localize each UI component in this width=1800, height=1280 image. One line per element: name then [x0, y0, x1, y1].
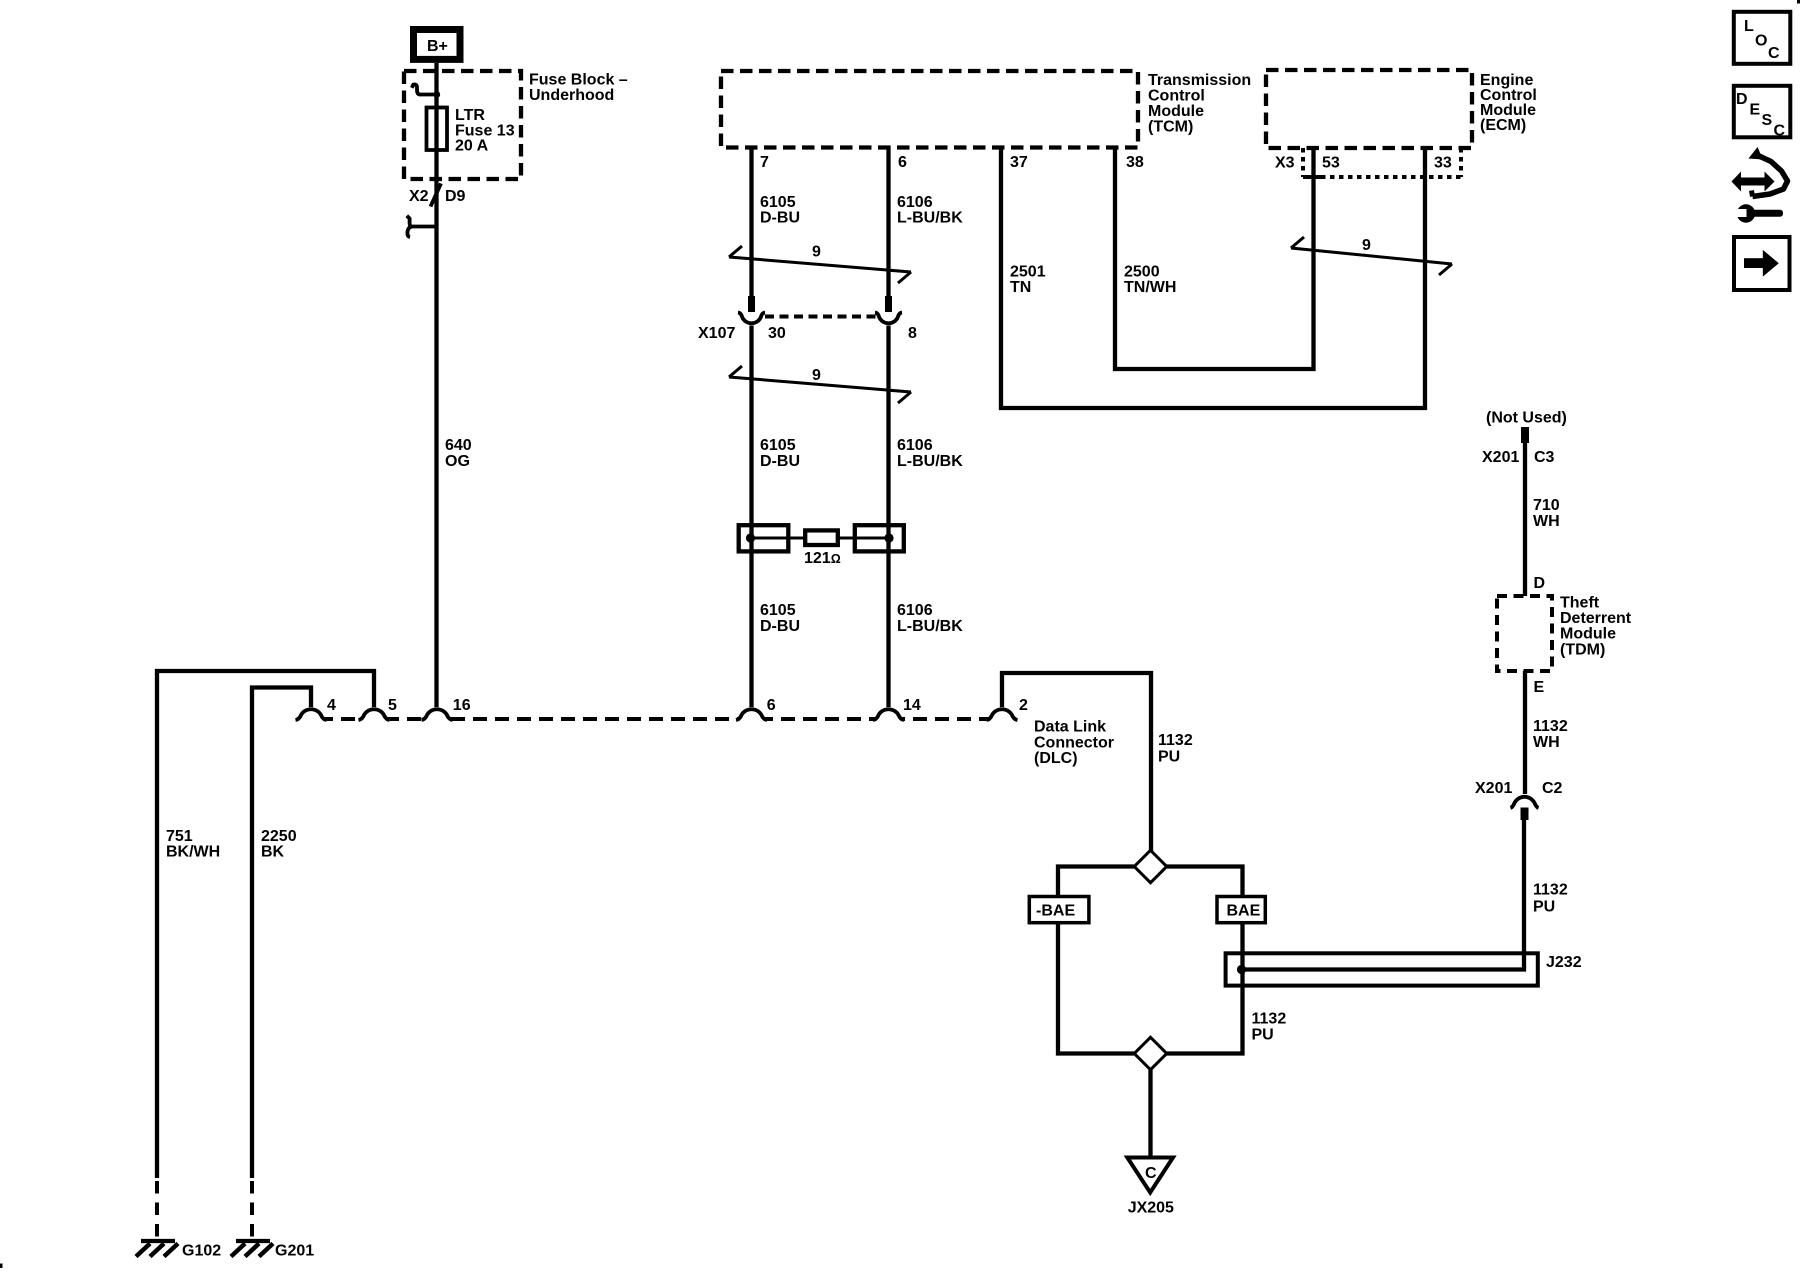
svg-text:C: C	[1774, 123, 1786, 140]
wire -BAE to lower splice	[1058, 923, 1134, 1054]
junction dot J232	[1237, 965, 1246, 974]
svg-text:S: S	[1762, 112, 1773, 129]
svg-text:Control: Control	[1148, 88, 1205, 105]
svg-text:G201: G201	[275, 1243, 314, 1260]
connector X2 D9 slash	[431, 184, 442, 207]
ground G201	[231, 1241, 273, 1257]
svg-text:C2: C2	[1542, 780, 1563, 797]
svg-text:D-BU: D-BU	[760, 618, 800, 635]
label 640 OG	[445, 437, 472, 470]
svg-text:20 A: 20 A	[455, 138, 489, 155]
junction dot left	[746, 533, 755, 542]
splice diamond lower	[1134, 1037, 1167, 1069]
svg-text:(TDM): (TDM)	[1560, 642, 1605, 659]
svg-text:751: 751	[166, 828, 193, 845]
DLC pin bump 16	[422, 707, 453, 722]
svg-text:C: C	[1768, 45, 1780, 62]
connector hook terminal below fuse block	[407, 216, 437, 237]
svg-text:1132: 1132	[1533, 882, 1568, 899]
wire 1132 WH : TDM E to X201 C2	[1523, 671, 1527, 794]
svg-text:6: 6	[898, 154, 907, 171]
svg-text:JX205: JX205	[1128, 1200, 1174, 1217]
DLC pin bump 6	[736, 707, 767, 722]
label 6105 D-BU (middle)	[760, 437, 800, 470]
svg-text:30: 30	[768, 325, 786, 342]
svg-text:6105: 6105	[760, 602, 796, 619]
battery feed B+	[414, 30, 461, 60]
svg-text:D9: D9	[445, 188, 466, 205]
svg-text:6106: 6106	[897, 437, 933, 454]
svg-text:(ECM): (ECM)	[1480, 117, 1526, 134]
svg-text:X107: X107	[698, 325, 735, 342]
wire 640 OG from B+ to DLC pin 16	[434, 63, 438, 708]
svg-text:BAE: BAE	[1227, 903, 1261, 920]
label 6105 D-BU (upper)	[760, 194, 800, 227]
svg-text:(Not Used): (Not Used)	[1486, 410, 1567, 427]
TCM module dashed box	[721, 71, 1138, 148]
connector hook terminal at fuse input	[412, 84, 440, 97]
wire 2500 TN/WH : TCM 38 to ECM 53 U-run	[1115, 146, 1314, 369]
svg-text:6: 6	[767, 697, 776, 714]
wire 2501 TN : TCM 37 to ECM 33 U-run	[1001, 146, 1425, 408]
label Theft Deterrent Module (TDM)	[1560, 595, 1632, 659]
svg-text:5: 5	[388, 697, 397, 714]
wire 1132 PU from X201 C2 into J232	[1242, 819, 1525, 970]
svg-text:33: 33	[1434, 155, 1452, 172]
wire BAE through J232 to lower splice	[1167, 923, 1243, 1054]
label 6106 L-BU/BK (upper)	[897, 194, 963, 227]
svg-text:2: 2	[1019, 697, 1028, 714]
svg-text:6106: 6106	[897, 602, 933, 619]
twisted pair marker 9 (ECM pair)	[1291, 237, 1452, 275]
dashed lead to ground G102	[155, 1181, 159, 1241]
svg-text:X3: X3	[1275, 155, 1295, 172]
svg-text:L-BU/BK: L-BU/BK	[897, 618, 963, 635]
svg-text:C3: C3	[1534, 449, 1555, 466]
wire splice to -BAE branch (left upper)	[1058, 867, 1134, 898]
svg-text:L-BU/BK: L-BU/BK	[897, 210, 963, 227]
svg-text:Theft: Theft	[1560, 595, 1600, 612]
label Data Link Connector (DLC)	[1034, 719, 1114, 767]
svg-text:LTR: LTR	[455, 107, 485, 124]
svg-text:9: 9	[812, 367, 821, 384]
svg-text:16: 16	[453, 697, 471, 714]
icon forward arrow box	[1734, 237, 1790, 290]
svg-text:6105: 6105	[760, 437, 796, 454]
svg-text:Data Link: Data Link	[1034, 719, 1106, 736]
svg-text:BK: BK	[261, 844, 285, 861]
svg-text:D-BU: D-BU	[760, 210, 800, 227]
svg-text:1132: 1132	[1252, 1011, 1287, 1028]
icon DESC box	[1734, 86, 1791, 140]
svg-text:B+: B+	[427, 38, 448, 55]
svg-text:L: L	[1744, 18, 1754, 35]
label Transmission Control Module (TCM)	[1148, 72, 1251, 136]
splice pack triangle JX205	[1127, 1158, 1173, 1193]
svg-text:E: E	[1750, 102, 1761, 119]
terminal box BAE	[1217, 897, 1265, 923]
junction dot right	[884, 533, 893, 542]
bus bar J232	[1226, 953, 1538, 985]
DLC pin bump 4	[296, 707, 327, 722]
wire 6106 L-BU/BK upper segment (TCM 6 to X107)	[886, 146, 890, 297]
svg-text:2250: 2250	[261, 828, 297, 845]
svg-text:38: 38	[1126, 154, 1144, 171]
page artifact bottom-left	[0, 1264, 3, 1269]
svg-text:X201: X201	[1482, 449, 1519, 466]
icon service manual arrow + wrench	[1731, 147, 1788, 223]
svg-text:WH: WH	[1533, 513, 1560, 530]
svg-text:Deterrent: Deterrent	[1560, 610, 1632, 627]
inline connector X201 C2 (socket + male pin)	[1511, 797, 1539, 820]
svg-text:9: 9	[812, 244, 821, 261]
ground wire 751 BK/WH : DLC 5 elbow to G102	[157, 671, 374, 1178]
inline connector X107 pin 8 (male pin + socket)	[875, 296, 902, 323]
splice diamond upper	[1134, 850, 1167, 882]
svg-text:TN/WH: TN/WH	[1124, 279, 1176, 296]
ground wire 2250 BK : DLC 4 elbow to G201	[252, 688, 311, 1179]
label Fuse Block Underhood	[529, 72, 628, 105]
twisted pair marker 9 (upper)	[729, 244, 911, 284]
svg-text:Transmission: Transmission	[1148, 72, 1251, 89]
svg-text:6105: 6105	[760, 194, 796, 211]
X107 dashed connector line	[765, 315, 876, 319]
label 751 BK/WH	[166, 828, 220, 861]
svg-text:Module: Module	[1560, 626, 1616, 643]
DLC pin bump 2	[987, 707, 1018, 722]
svg-text:53: 53	[1322, 155, 1340, 172]
wire link resistor to right block	[838, 537, 888, 540]
wire 6106 L-BU/BK middle segment (X107 to DLC 14)	[886, 326, 890, 709]
ECM X3 connector strip	[1303, 148, 1461, 177]
wire 6105 D-BU middle segment (X107 to DLC 6)	[749, 326, 753, 709]
svg-text:(TCM): (TCM)	[1148, 119, 1193, 136]
label 1132 PU (below J232)	[1252, 1011, 1287, 1044]
svg-text:PU: PU	[1252, 1027, 1274, 1044]
TDM module dashed box	[1497, 596, 1552, 671]
svg-text:WH: WH	[1533, 734, 1560, 751]
svg-text:710: 710	[1533, 497, 1560, 514]
fuse block underhood dashed box	[404, 71, 521, 179]
ground G102	[136, 1241, 178, 1257]
svg-text:6106: 6106	[897, 194, 933, 211]
wire splice to BAE branch (right upper)	[1167, 867, 1243, 898]
svg-text:Fuse Block –: Fuse Block –	[529, 72, 628, 89]
wire 6105 D-BU upper segment (TCM 7 to X107)	[749, 146, 753, 297]
svg-text:C: C	[1145, 1165, 1157, 1182]
svg-text:OG: OG	[445, 453, 470, 470]
label 2500 TN/WH	[1124, 264, 1176, 297]
label 1132 PU (DLC drop)	[1158, 732, 1193, 766]
wire lower splice to JX205	[1148, 1070, 1152, 1157]
DLC connector dashed line	[297, 717, 1015, 721]
svg-text:D: D	[1736, 91, 1748, 108]
wire 1132 PU : DLC 2 elbow to splice diamond	[1002, 673, 1151, 852]
page artifact top-right	[1797, 0, 1800, 4]
svg-text:14: 14	[903, 697, 921, 714]
svg-text:PU: PU	[1158, 749, 1180, 766]
svg-text:1132: 1132	[1533, 718, 1568, 735]
label 6105 D-BU (lower)	[760, 602, 800, 635]
DLC pin bump 5	[359, 707, 390, 722]
svg-text:37: 37	[1010, 154, 1028, 171]
svg-text:Module: Module	[1148, 103, 1204, 120]
resistor 121 ohm body	[805, 530, 838, 545]
label 6106 L-BU/BK (lower)	[897, 602, 963, 635]
svg-text:Connector: Connector	[1034, 734, 1114, 751]
svg-text:L-BU/BK: L-BU/BK	[897, 453, 963, 470]
svg-text:G102: G102	[182, 1243, 221, 1260]
dashed lead to ground G201	[250, 1181, 254, 1241]
fuse LTR Fuse 13 20 A	[427, 107, 515, 155]
connector pin X201 C3 (male pin, not used)	[1521, 427, 1529, 443]
svg-text:D: D	[1534, 575, 1546, 592]
svg-text:121Ω: 121Ω	[804, 550, 841, 567]
label 2501 TN	[1010, 264, 1046, 297]
svg-text:TN: TN	[1010, 279, 1031, 296]
svg-text:X201: X201	[1475, 780, 1512, 797]
wire 710 WH : X201 C3 to TDM D	[1523, 443, 1527, 596]
ECM module dashed box	[1266, 70, 1472, 148]
icon LOC box	[1734, 12, 1791, 64]
label Engine Control Module (ECM)	[1480, 72, 1537, 134]
label 6106 L-BU/BK (middle)	[897, 437, 963, 470]
svg-text:4: 4	[327, 697, 336, 714]
wire link left block to resistor	[752, 537, 805, 540]
svg-text:BK/WH: BK/WH	[166, 844, 220, 861]
label 1132 WH	[1533, 718, 1568, 751]
svg-text:-BAE: -BAE	[1036, 903, 1075, 920]
svg-text:O: O	[1755, 33, 1767, 50]
terminating resistor network: right terminal block	[855, 525, 904, 551]
svg-text:640: 640	[445, 437, 472, 454]
svg-text:9: 9	[1362, 237, 1371, 254]
terminating resistor network: left terminal block	[739, 525, 789, 551]
terminal box -BAE	[1029, 897, 1089, 923]
svg-text:E: E	[1534, 679, 1545, 696]
twisted pair marker 9 (lower)	[729, 366, 911, 403]
svg-text:2500: 2500	[1124, 264, 1160, 281]
inline connector X107 pin 30 (male pin + socket)	[738, 296, 765, 323]
svg-text:(DLC): (DLC)	[1034, 750, 1078, 767]
svg-text:Underhood: Underhood	[529, 87, 614, 104]
svg-text:8: 8	[908, 325, 917, 342]
svg-text:J232: J232	[1546, 954, 1582, 971]
svg-text:X2: X2	[409, 188, 429, 205]
svg-text:PU: PU	[1533, 899, 1555, 916]
label 710 WH	[1533, 497, 1560, 530]
label 1132 PU (right)	[1533, 882, 1568, 916]
svg-text:7: 7	[760, 154, 769, 171]
DLC pin bump 14	[873, 707, 904, 722]
svg-text:1132: 1132	[1158, 732, 1193, 749]
svg-text:D-BU: D-BU	[760, 453, 800, 470]
label 2250 BK	[261, 828, 297, 861]
svg-text:2501: 2501	[1010, 264, 1046, 281]
